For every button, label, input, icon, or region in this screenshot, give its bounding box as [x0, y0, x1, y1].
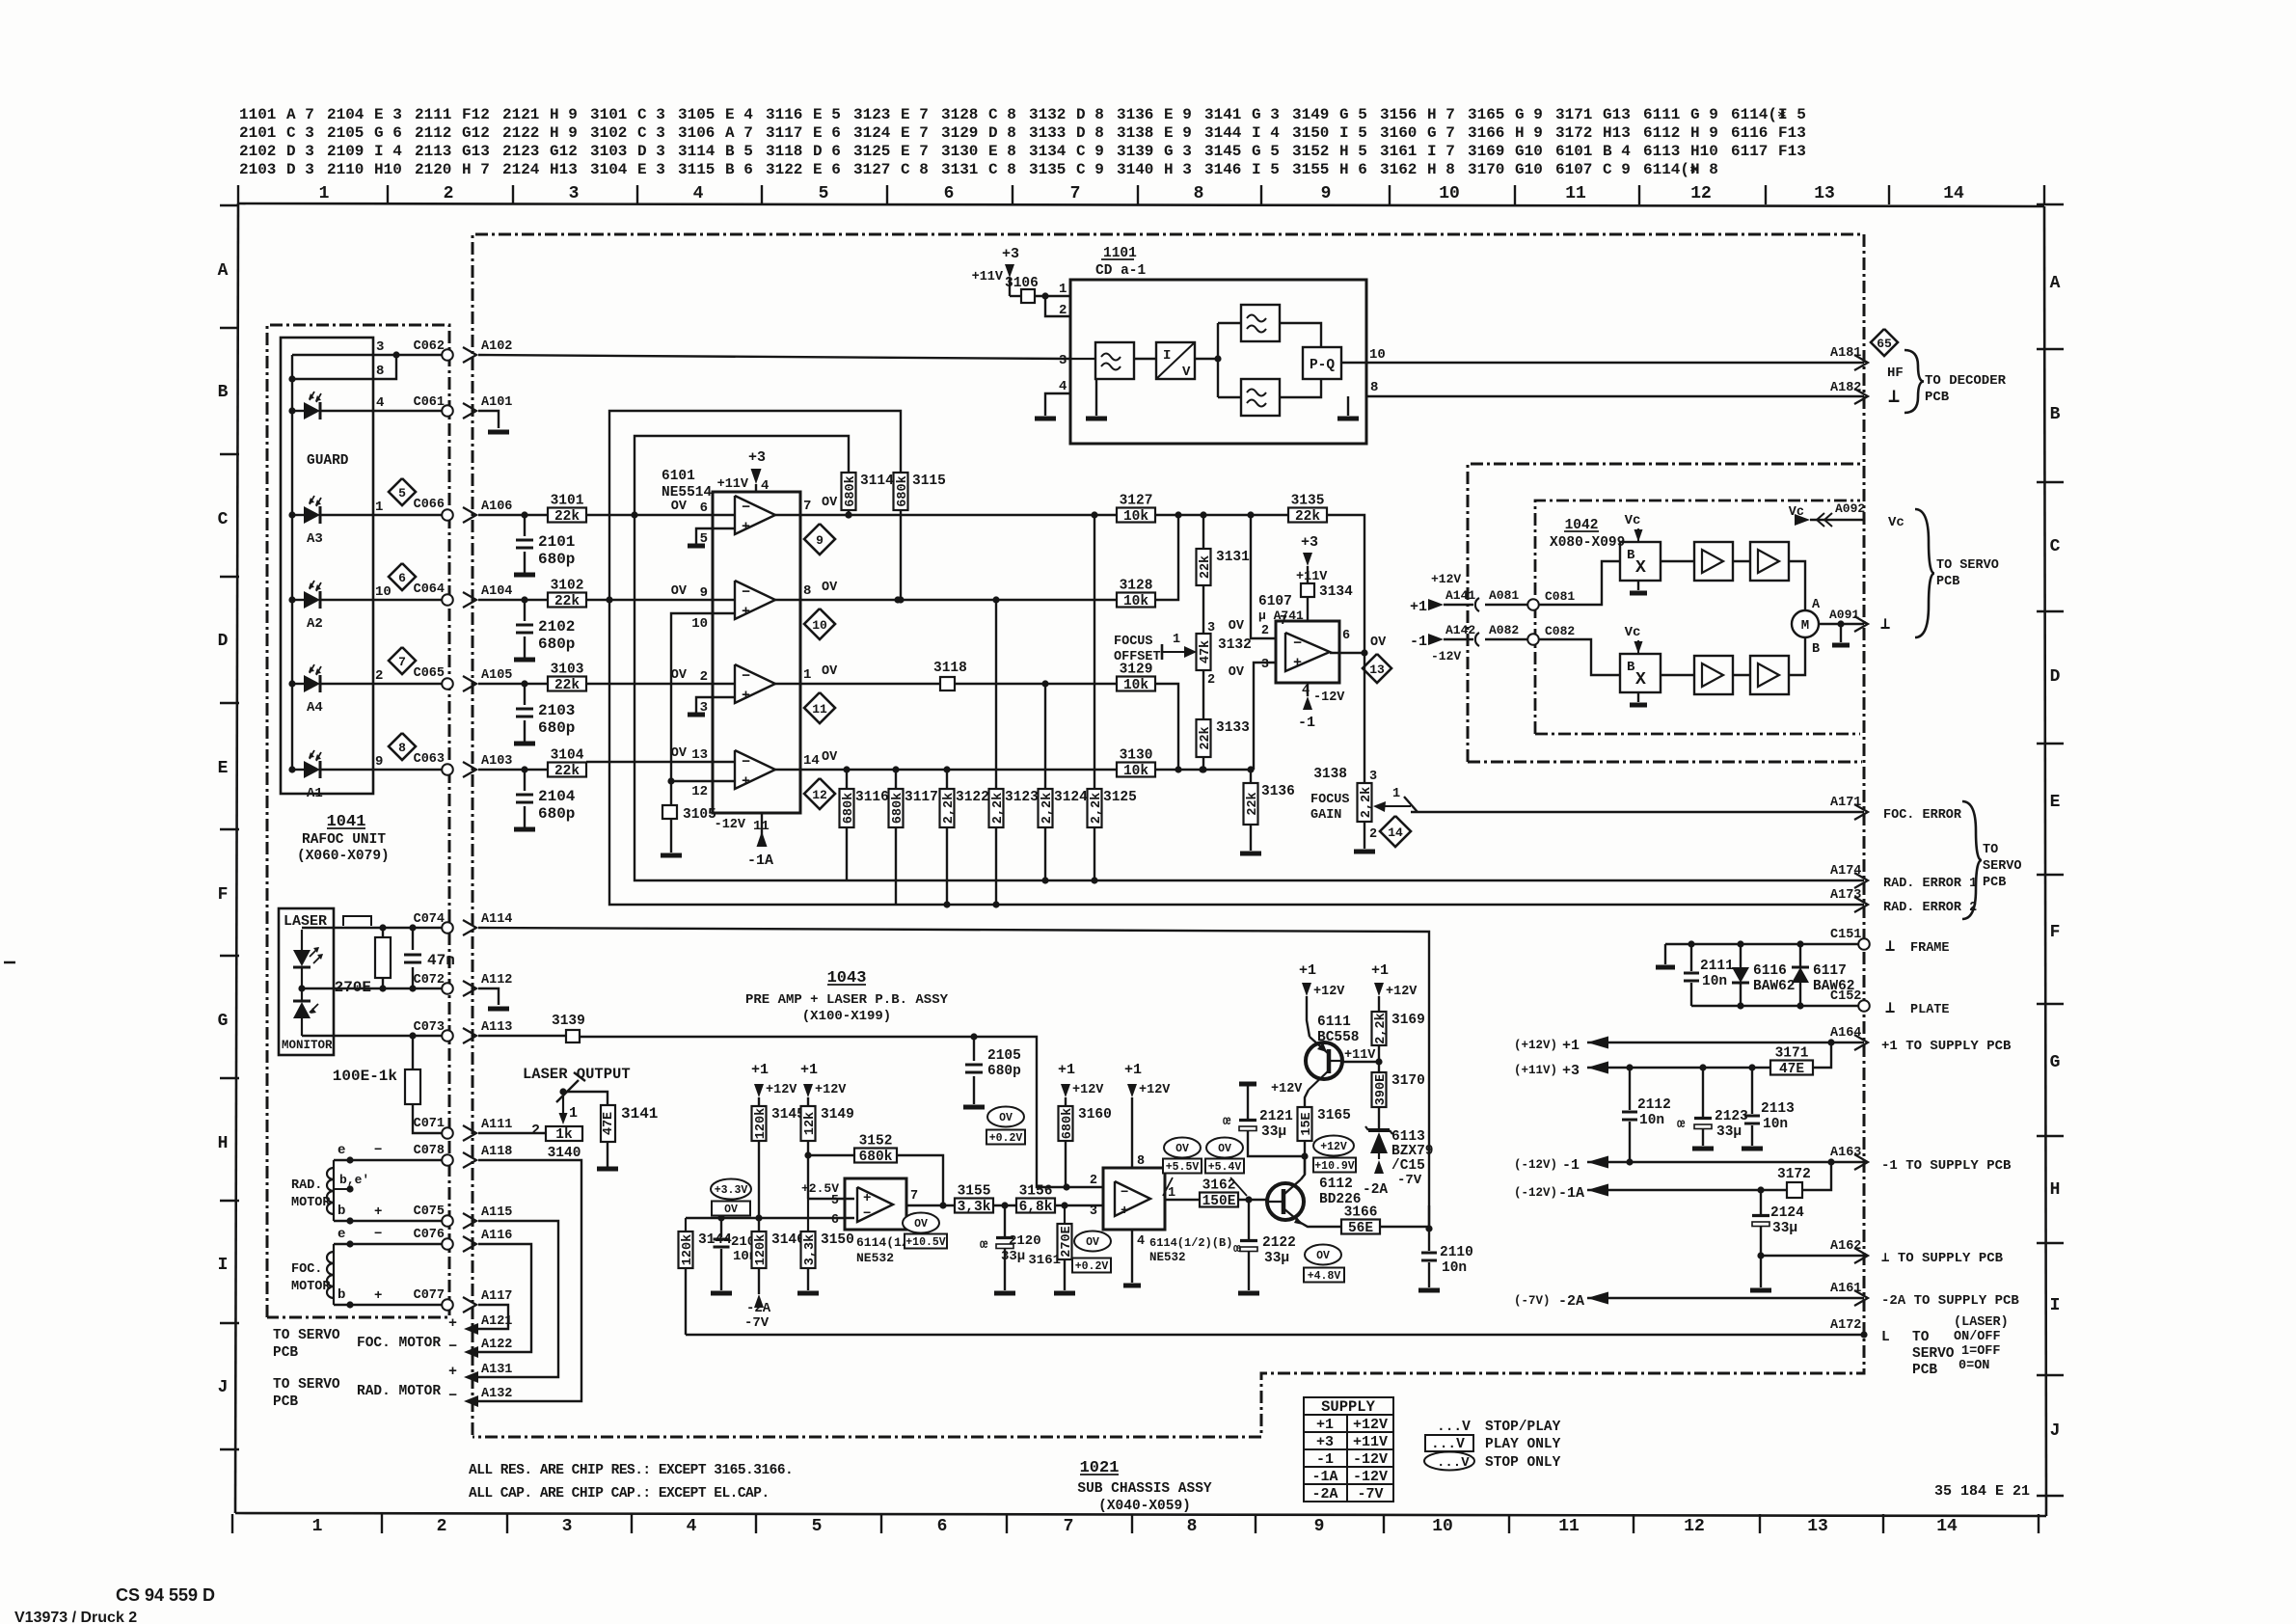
wire pin6 input — [686, 1214, 854, 1221]
svg-text:C077: C077 — [414, 1288, 445, 1303]
connector C074 — [414, 912, 453, 934]
svg-text:3132: 3132 — [1218, 637, 1252, 653]
svg-text:-12V: -12V — [1353, 1469, 1388, 1485]
svg-text:-7V: -7V — [1357, 1486, 1383, 1502]
connector A112 — [463, 973, 512, 996]
svg-text:2,2k: 2,2k — [1090, 793, 1104, 824]
resistor 3106 — [1005, 276, 1039, 303]
ground below 2101 — [514, 573, 535, 578]
svg-text:−: − — [742, 584, 750, 601]
svg-text:OV: OV — [1229, 665, 1245, 680]
resistor 3128 10k — [1117, 579, 1155, 610]
svg-text:680p: 680p — [987, 1064, 1021, 1079]
svg-text:A181: A181 — [1830, 346, 1861, 361]
wire feedback 3115 row2 — [609, 411, 901, 600]
svg-text:C 8: C 8 — [988, 161, 1016, 178]
ground below 2113 — [1742, 1147, 1763, 1151]
svg-text:FRAME: FRAME — [1910, 941, 1950, 956]
laser output wiper — [523, 1066, 631, 1124]
svg-text:−: − — [1121, 1185, 1128, 1201]
svg-text:(+11V): (+11V) — [1514, 1064, 1557, 1077]
wire A116 to A122 — [478, 1244, 531, 1352]
svg-text:3161: 3161 — [1380, 143, 1417, 160]
supply -2A below 6113 — [1363, 1160, 1388, 1198]
svg-text:MOTOR: MOTOR — [291, 1280, 331, 1294]
wire row4 3104 to pin13 — [586, 761, 713, 763]
resistor 3114 680k — [842, 473, 895, 519]
svg-text:A116: A116 — [481, 1229, 512, 1243]
connector C152 — [1830, 989, 1870, 1012]
label OV +0.2V near 2105 — [986, 1107, 1025, 1146]
svg-text:+1: +1 — [751, 1062, 769, 1078]
svg-text:2111: 2111 — [1700, 959, 1734, 974]
svg-text:5: 5 — [812, 1517, 823, 1536]
svg-text:G: G — [2050, 1053, 2061, 1072]
supply +1 A141 input — [1410, 572, 1475, 615]
ground below 2122 — [1238, 1291, 1259, 1296]
svg-text:2,2k: 2,2k — [991, 793, 1006, 824]
capacitor 2102 680p — [516, 600, 575, 658]
svg-text:H 3: H 3 — [1164, 161, 1192, 178]
svg-text:3162: 3162 — [1202, 1178, 1236, 1194]
svg-text:6: 6 — [944, 184, 955, 203]
iv converter block — [1134, 342, 1195, 380]
svg-text:...V: ...V — [1431, 1437, 1465, 1452]
svg-text:C: C — [2050, 537, 2061, 556]
svg-text:A3: A3 — [307, 531, 323, 547]
svg-text:-12V: -12V — [1431, 649, 1461, 663]
svg-text:A162: A162 — [1830, 1239, 1861, 1254]
svg-text:+3: +3 — [748, 449, 766, 466]
svg-text:A: A — [1812, 598, 1821, 612]
foc motor coil — [291, 1244, 334, 1305]
resistor 3172 — [1777, 1162, 1831, 1198]
spark-gap link — [343, 916, 371, 926]
resistor 3149 12k — [801, 1106, 854, 1199]
svg-text:120k: 120k — [681, 1234, 695, 1265]
svg-text:SERVO: SERVO — [1983, 859, 2022, 874]
svg-text:3145: 3145 — [1204, 143, 1241, 160]
svg-text:33μ: 33μ — [1261, 1124, 1286, 1140]
servo amp upper 1 — [1661, 542, 1733, 581]
svg-text:+: + — [374, 1288, 382, 1304]
svg-text:B: B — [1627, 548, 1635, 563]
svg-text:3115: 3115 — [912, 474, 946, 489]
svg-text:3114: 3114 — [860, 474, 894, 489]
svg-text:G 5: G 5 — [1339, 106, 1367, 123]
connector C066 — [414, 498, 453, 521]
connector C081 — [1527, 589, 1575, 610]
svg-text:2124: 2124 — [502, 161, 540, 178]
svg-text:680p: 680p — [538, 636, 575, 653]
svg-text:3129: 3129 — [941, 124, 978, 142]
svg-text:œ: œ — [980, 1237, 988, 1253]
svg-text:MONITOR: MONITOR — [282, 1039, 333, 1052]
resistor 3101 22k — [548, 494, 586, 526]
wire C078 row — [334, 1143, 447, 1164]
wire A112 to ground — [478, 988, 499, 1005]
pq decoder block — [1280, 323, 1341, 397]
wire 3125 column — [1094, 515, 1095, 789]
svg-text:2123: 2123 — [1715, 1109, 1748, 1124]
label 1041 RAFOC UNIT — [297, 813, 390, 864]
svg-text:4: 4 — [761, 478, 769, 494]
svg-text:3156: 3156 — [1019, 1184, 1053, 1200]
svg-text:A 7: A 7 — [725, 124, 753, 142]
svg-text:E 6: E 6 — [813, 161, 841, 178]
svg-text:3101: 3101 — [590, 106, 627, 123]
svg-text:2121: 2121 — [1259, 1109, 1293, 1124]
svg-text:œ: œ — [1223, 1114, 1231, 1129]
svg-text:3160: 3160 — [1078, 1107, 1112, 1123]
svg-text:1: 1 — [1168, 1186, 1175, 1201]
svg-text:TO SERVO: TO SERVO — [273, 1328, 340, 1343]
wire 3138 to ground — [1364, 822, 1365, 849]
ground at A091 — [1832, 624, 1850, 645]
svg-text:+1: +1 — [1058, 1062, 1075, 1078]
wire row2 3102 to pin9 — [586, 596, 713, 603]
ground below 2123 — [1692, 1147, 1714, 1151]
svg-text:C072: C072 — [414, 973, 445, 988]
svg-text:A111: A111 — [481, 1118, 512, 1132]
svg-text:+1: +1 — [800, 1062, 818, 1078]
svg-text:Vc: Vc — [1789, 505, 1804, 520]
component location reference table — [239, 106, 1806, 178]
connector C065 — [414, 666, 453, 690]
brace TO DECODER PCB — [1904, 350, 2007, 413]
svg-text:3162: 3162 — [1380, 161, 1417, 178]
label TO SERVO PCB RAD MOTOR — [273, 1377, 441, 1410]
svg-text:FOCUS: FOCUS — [1310, 793, 1350, 807]
svg-text:2: 2 — [1261, 624, 1269, 638]
svg-text:H13: H13 — [1603, 124, 1631, 142]
svg-text:A082: A082 — [1489, 623, 1519, 637]
svg-text:+3: +3 — [1002, 246, 1019, 262]
svg-text:6112: 6112 — [1643, 124, 1680, 142]
capacitor 2123 33u electrolytic — [1677, 1068, 1748, 1146]
supply +1 3160 — [1058, 1062, 1104, 1106]
svg-text:F: F — [2050, 923, 2061, 942]
svg-text:-2A: -2A — [1558, 1293, 1584, 1310]
svg-text:+: + — [1121, 1204, 1128, 1219]
svg-text:OV: OV — [671, 668, 688, 683]
svg-text:10: 10 — [691, 616, 708, 632]
ground below 2102 — [514, 658, 535, 663]
svg-text:(+12V): (+12V) — [1514, 1039, 1557, 1052]
wire rail RAD ERROR 1 — [635, 515, 1864, 884]
svg-text:C074: C074 — [414, 912, 445, 927]
svg-text:G 9: G 9 — [1515, 106, 1543, 123]
svg-text:A1: A1 — [307, 786, 323, 801]
connector C071 — [414, 1117, 453, 1139]
svg-text:3: 3 — [1059, 353, 1067, 368]
svg-text:C 3: C 3 — [637, 124, 665, 142]
svg-text:7: 7 — [1070, 184, 1081, 203]
svg-text:7: 7 — [910, 1189, 918, 1204]
svg-text:A121: A121 — [481, 1314, 512, 1329]
svg-text:B: B — [1812, 642, 1820, 657]
connector C062 — [414, 339, 453, 361]
svg-text:A4: A4 — [307, 700, 323, 716]
svg-text:5: 5 — [819, 184, 829, 203]
svg-text:1=OFF: 1=OFF — [1961, 1344, 2001, 1359]
svg-text:G12: G12 — [462, 124, 490, 142]
ground below 3136 — [1240, 852, 1261, 856]
wire A164 +1 row — [1514, 1037, 1864, 1055]
svg-text:A132: A132 — [481, 1387, 512, 1401]
svg-text:1: 1 — [1173, 633, 1180, 647]
svg-text:C073: C073 — [414, 1020, 445, 1035]
frame top column ticks and numbers — [238, 184, 2044, 204]
svg-text:I 4: I 4 — [1252, 124, 1280, 142]
svg-text:10k: 10k — [1123, 509, 1148, 525]
svg-text:G: G — [218, 1012, 229, 1031]
svg-text:+1: +1 — [1124, 1062, 1142, 1078]
svg-text:A103: A103 — [481, 754, 512, 769]
resistor 3122 2,2k — [940, 789, 989, 827]
svg-text:E 8: E 8 — [988, 143, 1016, 160]
wire pin8 out — [1366, 380, 1864, 396]
svg-text:C 8: C 8 — [988, 106, 1016, 123]
resistor 3144 120k — [679, 1218, 733, 1335]
wire 3106 to pins 1,2 — [1035, 282, 1070, 318]
svg-text:B: B — [2050, 405, 2061, 424]
svg-text:+10.9V: +10.9V — [1314, 1160, 1355, 1173]
svg-text:6107: 6107 — [1555, 161, 1592, 178]
svg-text:G 3: G 3 — [1252, 106, 1280, 123]
svg-text:A115: A115 — [481, 1205, 512, 1220]
svg-text:1: 1 — [569, 1105, 578, 1122]
svg-text:OV: OV — [822, 496, 838, 510]
svg-text:7: 7 — [1064, 1517, 1074, 1536]
resistor 3160 680k — [1059, 1106, 1112, 1187]
svg-text:3141: 3141 — [1204, 106, 1241, 123]
ground below 3150 — [797, 1291, 819, 1296]
svg-text:A172: A172 — [1830, 1318, 1861, 1333]
svg-text:3105: 3105 — [678, 106, 715, 123]
svg-text:6: 6 — [937, 1517, 948, 1536]
svg-text:-2A: -2A — [1311, 1486, 1337, 1502]
svg-text:3101: 3101 — [551, 494, 584, 509]
svg-text:I: I — [1163, 348, 1171, 364]
wire C076 row — [334, 1227, 447, 1248]
svg-text:PCB: PCB — [1912, 1363, 1937, 1378]
assembly boundary 1041 RAFOC UNIT (dash-dot) — [267, 325, 449, 1317]
svg-text:⊥: ⊥ — [1885, 938, 1895, 957]
wire 3116 column — [846, 770, 848, 789]
svg-text:2112: 2112 — [1637, 1097, 1671, 1113]
svg-text:8: 8 — [1194, 184, 1204, 203]
connector A132 — [448, 1387, 512, 1407]
svg-text:CD a-1: CD a-1 — [1095, 263, 1147, 279]
focus gain wiper to A171 — [1373, 787, 1864, 812]
capacitor 2111 10n — [1684, 944, 1734, 1006]
svg-text:+: + — [1293, 655, 1302, 671]
supply -12V pin4 6107 — [1298, 683, 1345, 731]
svg-text:H 9: H 9 — [1515, 124, 1543, 142]
svg-text:14: 14 — [1388, 826, 1403, 840]
svg-text:3124: 3124 — [853, 124, 891, 142]
wire NE532B pin4 ground — [1123, 1230, 1141, 1286]
ground at A101 — [488, 430, 509, 435]
connector A163 — [1830, 1146, 2012, 1174]
svg-text:A105: A105 — [481, 668, 512, 683]
svg-text:47k: 47k — [1199, 640, 1213, 663]
svg-text:ON/OFF: ON/OFF — [1954, 1330, 2001, 1344]
capacitor 2113 10n — [1744, 1068, 1795, 1146]
svg-text:-2A TO SUPPLY PCB: -2A TO SUPPLY PCB — [1881, 1293, 2019, 1309]
svg-text:3135: 3135 — [1029, 161, 1066, 178]
svg-text:-1: -1 — [1410, 634, 1427, 650]
label OV pin13 — [671, 746, 688, 761]
wire 3128 to row1 — [1154, 515, 1178, 600]
svg-text:D 3: D 3 — [286, 161, 314, 178]
svg-text:-7V: -7V — [1397, 1173, 1422, 1188]
svg-text:C064: C064 — [414, 582, 445, 597]
svg-text:22k: 22k — [1199, 555, 1213, 579]
wire A4 to C065 — [320, 668, 447, 684]
svg-text:3169: 3169 — [1468, 143, 1504, 160]
svg-text:9: 9 — [816, 533, 824, 548]
svg-text:3141: 3141 — [621, 1105, 658, 1123]
svg-text:C 3: C 3 — [286, 124, 314, 142]
svg-text:+0.2V: +0.2V — [989, 1132, 1023, 1145]
svg-text:PCB: PCB — [273, 1345, 298, 1361]
svg-text:Vc: Vc — [1625, 625, 1641, 640]
svg-text:œ: œ — [1233, 1241, 1241, 1256]
svg-text:OV: OV — [671, 746, 688, 761]
svg-text:3138: 3138 — [1313, 767, 1347, 782]
svg-text:6: 6 — [398, 571, 406, 585]
svg-text:680p: 680p — [538, 719, 575, 737]
svg-text:-1: -1 — [1562, 1157, 1580, 1174]
svg-text:3125: 3125 — [1103, 790, 1137, 805]
svg-text:3122: 3122 — [956, 790, 989, 805]
op-amp 6107 uA741 — [1258, 594, 1350, 683]
svg-text:22k: 22k — [554, 509, 580, 525]
svg-text:G 9: G 9 — [1690, 106, 1718, 123]
connector C064 — [414, 582, 453, 606]
svg-text:C066: C066 — [414, 498, 445, 512]
svg-text:10n: 10n — [1763, 1117, 1788, 1132]
svg-text:PCB: PCB — [273, 1394, 298, 1410]
wire A2 to C064 — [320, 584, 447, 600]
svg-text:LASER OUTPUT: LASER OUTPUT — [523, 1066, 631, 1083]
svg-text:A142: A142 — [1445, 623, 1475, 637]
wire C151 row — [1665, 940, 1864, 947]
svg-text:D: D — [2050, 667, 2061, 687]
svg-text:C 3: C 3 — [637, 106, 665, 123]
svg-text:680k: 680k — [859, 1150, 893, 1165]
svg-text:680k: 680k — [896, 475, 910, 506]
svg-text:9: 9 — [375, 754, 383, 770]
resistor 270E — [335, 928, 391, 996]
label +12V +10.9V — [1313, 1136, 1356, 1174]
svg-text:+: + — [742, 519, 750, 535]
svg-text:3134: 3134 — [1029, 143, 1067, 160]
svg-text:7: 7 — [398, 655, 406, 669]
svg-text:A: A — [2050, 274, 2061, 293]
svg-text:OV: OV — [914, 1218, 928, 1231]
resistor 3133 22k — [1197, 719, 1250, 773]
diode 6116 BAW62 — [1732, 944, 1796, 1006]
diamond waypoint 12 — [804, 778, 835, 809]
svg-text:H 9: H 9 — [1690, 124, 1718, 142]
ground below 2124 — [1750, 1288, 1771, 1293]
svg-text:A173: A173 — [1830, 888, 1861, 903]
svg-text:680k: 680k — [844, 475, 858, 506]
motor M — [1792, 598, 1821, 657]
svg-text:3169: 3169 — [1391, 1013, 1425, 1028]
svg-text:e: e — [338, 1143, 345, 1158]
svg-text:10: 10 — [1432, 1517, 1453, 1536]
svg-text:+11V: +11V — [1353, 1434, 1388, 1450]
svg-text:6107: 6107 — [1258, 594, 1292, 609]
svg-text:b: b — [338, 1204, 345, 1219]
svg-text:680p: 680p — [538, 551, 575, 568]
svg-text:3102: 3102 — [590, 124, 627, 142]
svg-text:FOC. ERROR: FOC. ERROR — [1883, 808, 1962, 823]
wire A111 to 3140 — [478, 1123, 546, 1139]
doc number V13973 Druck 2 — [14, 1610, 137, 1624]
svg-text:10: 10 — [812, 618, 827, 633]
wire A1 to C063 — [320, 754, 447, 770]
svg-text:PLAY ONLY: PLAY ONLY — [1485, 1437, 1561, 1452]
svg-text:10: 10 — [1439, 184, 1460, 203]
capacitor 2122 33u electrolytic — [1233, 1200, 1296, 1290]
svg-text:3: 3 — [562, 1517, 573, 1536]
wire row4 to pin3 — [1254, 663, 1276, 770]
svg-text:3135: 3135 — [1291, 494, 1325, 509]
svg-text:6,8k: 6,8k — [1019, 1200, 1053, 1215]
svg-text:2,2k: 2,2k — [1360, 787, 1374, 818]
svg-text:A164: A164 — [1830, 1026, 1861, 1041]
svg-text:4: 4 — [687, 1517, 697, 1536]
wire NE532A output — [903, 1205, 956, 1249]
wire A172 row — [686, 1331, 1868, 1338]
resistor 3150 3.3k — [801, 1199, 854, 1290]
legend play only — [1425, 1435, 1561, 1452]
connector A174 — [1830, 864, 1977, 891]
svg-text:3138: 3138 — [1117, 124, 1153, 142]
ground below 2104 — [514, 827, 535, 832]
label 1021 SUB CHASSIS ASSY — [1077, 1459, 1212, 1514]
supply +3 pin7 6107 — [1280, 534, 1328, 629]
svg-text:B 5: B 5 — [725, 143, 753, 160]
svg-text:3131: 3131 — [941, 161, 978, 178]
transistor 6112 BD226 — [1266, 1177, 1362, 1225]
connector C082 — [1527, 624, 1575, 645]
svg-text:I 7: I 7 — [1427, 143, 1455, 160]
svg-text:2111: 2111 — [415, 106, 451, 123]
capacitor 2124 33u electrolytic — [1752, 1190, 1804, 1287]
connector A106 — [463, 500, 512, 523]
svg-text:11: 11 — [1558, 1517, 1580, 1536]
svg-text:+1: +1 — [1299, 962, 1316, 979]
svg-text:+4.8V: +4.8V — [1308, 1270, 1341, 1283]
resistor 3134 — [1301, 583, 1353, 621]
svg-text:14: 14 — [803, 753, 820, 769]
svg-text:22k: 22k — [1246, 792, 1260, 815]
svg-text:+1: +1 — [1562, 1038, 1580, 1054]
svg-text:3124: 3124 — [1054, 790, 1088, 805]
connector C063 — [414, 752, 453, 775]
svg-text:+3: +3 — [1562, 1063, 1580, 1079]
connector C076 — [414, 1228, 453, 1250]
svg-text:47E: 47E — [602, 1112, 616, 1135]
supply voltage table — [1304, 1397, 1393, 1502]
connector A103 — [463, 754, 512, 777]
